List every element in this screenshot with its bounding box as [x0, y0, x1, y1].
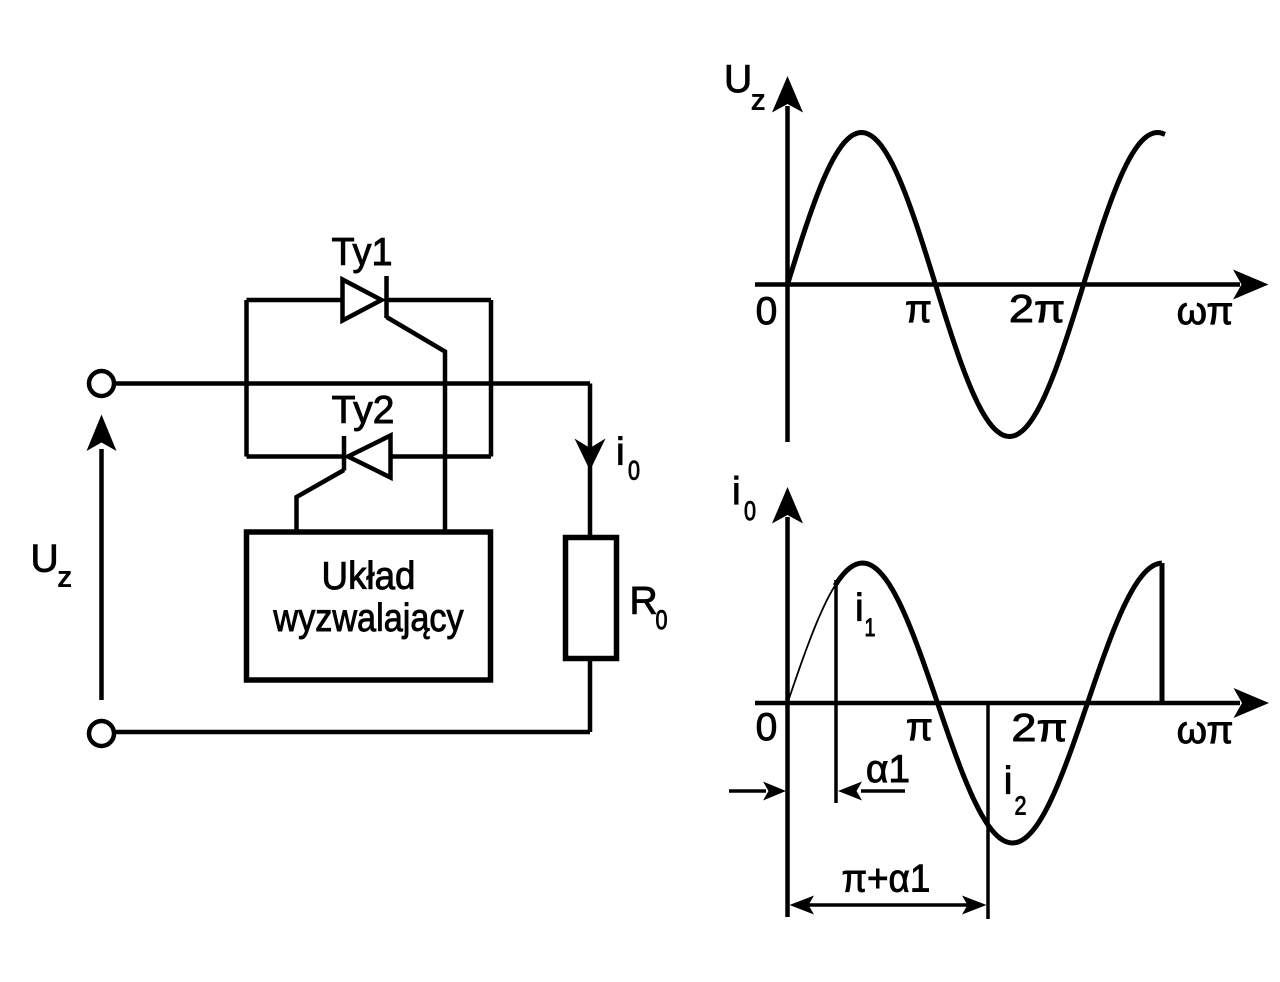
- svg-text:U: U: [31, 538, 59, 581]
- svg-text:0: 0: [656, 605, 668, 635]
- svg-text:Ty1: Ty1: [332, 231, 393, 274]
- svg-text:R: R: [630, 580, 658, 623]
- svg-text:i: i: [616, 431, 625, 474]
- svg-text:π+α1: π+α1: [842, 858, 931, 901]
- svg-text:Ty2: Ty2: [332, 389, 395, 432]
- svg-text:i: i: [1004, 760, 1013, 803]
- svg-text:z: z: [58, 562, 73, 594]
- svg-text:i: i: [732, 471, 741, 514]
- svg-text:0: 0: [628, 456, 640, 486]
- svg-text:0: 0: [744, 496, 756, 526]
- svg-text:ωπ: ωπ: [1177, 709, 1234, 752]
- svg-text:2π: 2π: [1009, 288, 1065, 331]
- svg-text:1: 1: [865, 614, 876, 642]
- svg-text:2π: 2π: [1011, 707, 1067, 750]
- svg-text:ωπ: ωπ: [1177, 290, 1234, 333]
- svg-text:2: 2: [1015, 791, 1027, 821]
- svg-text:0: 0: [756, 706, 778, 749]
- svg-text:wyzwalający: wyzwalający: [272, 597, 464, 640]
- svg-text:π: π: [905, 288, 932, 331]
- svg-text:U: U: [724, 58, 752, 101]
- svg-text:0: 0: [756, 290, 778, 333]
- svg-text:π: π: [906, 706, 933, 749]
- svg-text:α1: α1: [866, 748, 910, 791]
- svg-text:z: z: [751, 85, 766, 117]
- svg-text:Układ: Układ: [322, 555, 416, 598]
- svg-text:i: i: [855, 587, 864, 630]
